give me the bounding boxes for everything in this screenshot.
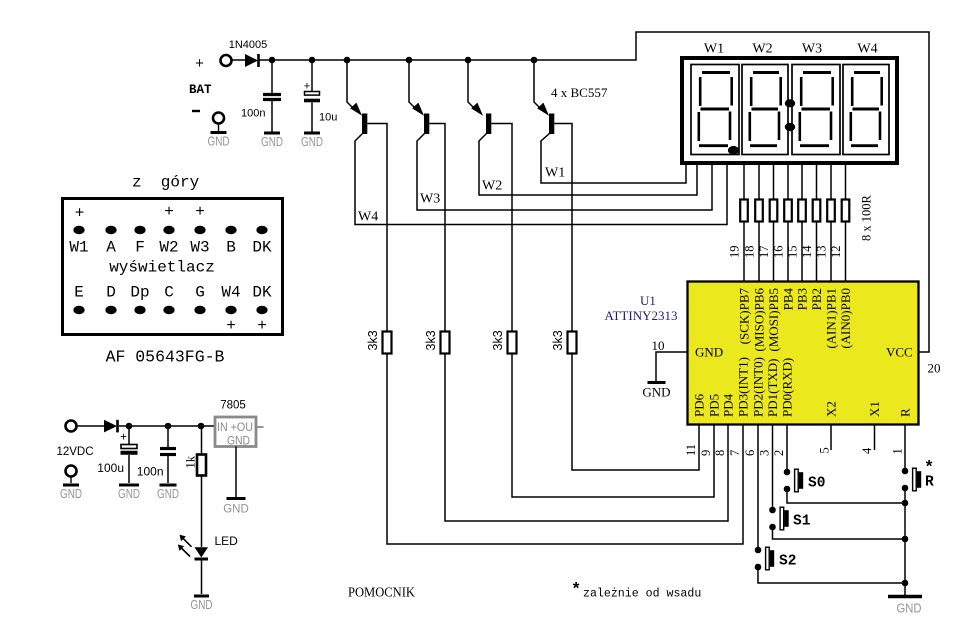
svg-text:+: + — [304, 81, 310, 93]
svg-text:GND: GND — [60, 487, 82, 501]
svg-text:*: * — [571, 581, 581, 600]
svg-text:(MOSI)PB5: (MOSI)PB5 — [766, 288, 781, 352]
svg-text:PD3(INT1): PD3(INT1) — [736, 357, 751, 417]
svg-text:GND: GND — [191, 598, 213, 612]
svg-text:GND: GND — [695, 345, 723, 360]
svg-text:*: * — [924, 459, 934, 478]
svg-text:1: 1 — [891, 448, 905, 454]
svg-text:18: 18 — [743, 246, 757, 259]
svg-text:(MISO)PB6: (MISO)PB6 — [752, 288, 767, 352]
svg-text:S2: S2 — [779, 554, 796, 570]
svg-text:+: + — [164, 203, 174, 221]
svg-text:W2: W2 — [159, 239, 178, 257]
svg-text:GND: GND — [897, 602, 922, 616]
svg-text:W2: W2 — [482, 179, 502, 194]
svg-text:100n: 100n — [137, 465, 164, 479]
svg-text:W1: W1 — [704, 42, 724, 57]
svg-text:W1: W1 — [69, 239, 88, 257]
svg-text:3k3: 3k3 — [424, 330, 438, 350]
svg-text:R: R — [898, 408, 913, 417]
svg-text:X2: X2 — [824, 401, 839, 417]
svg-text:W2: W2 — [752, 42, 772, 57]
svg-text:12: 12 — [829, 246, 843, 259]
svg-text:GND: GND — [642, 385, 670, 400]
svg-text:4 x BC557: 4 x BC557 — [551, 85, 608, 100]
svg-text:3k3: 3k3 — [366, 330, 380, 350]
svg-text:+: + — [75, 205, 85, 223]
svg-text:+: + — [257, 317, 267, 335]
svg-text:7: 7 — [728, 450, 742, 456]
svg-text:1N4005: 1N4005 — [229, 39, 268, 51]
svg-text:F: F — [135, 239, 145, 257]
svg-text:GND: GND — [157, 487, 179, 501]
svg-text:W1: W1 — [545, 166, 565, 181]
svg-text:2: 2 — [772, 450, 786, 456]
svg-text:PD6: PD6 — [692, 393, 707, 417]
svg-text:+: + — [195, 55, 204, 72]
svg-text:W4: W4 — [221, 284, 240, 302]
svg-text:W3: W3 — [420, 192, 440, 207]
svg-text:GND: GND — [118, 487, 140, 501]
svg-text:3: 3 — [758, 450, 772, 456]
svg-text:S0: S0 — [808, 476, 825, 492]
svg-text:D: D — [106, 284, 116, 302]
svg-text:W4: W4 — [358, 210, 378, 225]
svg-text:ATTINY2313: ATTINY2313 — [605, 308, 678, 323]
svg-text:Dp: Dp — [130, 284, 149, 302]
svg-text:E: E — [74, 284, 84, 302]
svg-text:U1: U1 — [640, 293, 656, 308]
svg-text:100n: 100n — [241, 108, 265, 120]
svg-text:15: 15 — [786, 246, 800, 259]
svg-text:PD2(INT0): PD2(INT0) — [751, 357, 766, 417]
svg-text:100u: 100u — [97, 461, 124, 475]
svg-text:PB2: PB2 — [809, 288, 824, 310]
svg-text:PD4: PD4 — [721, 393, 736, 417]
svg-text:12VDC: 12VDC — [56, 446, 93, 458]
svg-text:VCC: VCC — [886, 345, 913, 360]
svg-text:19: 19 — [728, 246, 742, 259]
svg-text:W4: W4 — [857, 42, 877, 57]
svg-text:DK: DK — [252, 284, 272, 302]
svg-text:10: 10 — [652, 338, 665, 353]
svg-text:6: 6 — [743, 450, 757, 456]
svg-text:+: + — [120, 432, 127, 444]
svg-text:A: A — [106, 239, 116, 257]
svg-text:LED: LED — [215, 534, 239, 548]
svg-text:4: 4 — [860, 447, 874, 454]
svg-text:DK: DK — [252, 239, 272, 257]
svg-text:(AIN1)PB1: (AIN1)PB1 — [824, 288, 839, 349]
svg-text:POMOCNIK: POMOCNIK — [348, 585, 415, 600]
svg-text:(AIN0)PB0: (AIN0)PB0 — [838, 288, 853, 349]
svg-text:20: 20 — [928, 361, 941, 376]
svg-text:GND: GND — [223, 504, 249, 516]
svg-text:AF 05643FG-B: AF 05643FG-B — [106, 348, 225, 367]
svg-text:9: 9 — [699, 450, 713, 456]
svg-text:W3: W3 — [190, 239, 209, 257]
svg-text:+: + — [195, 203, 205, 221]
svg-text:B: B — [226, 239, 236, 257]
svg-text:C: C — [164, 284, 174, 302]
svg-text:5: 5 — [818, 447, 832, 453]
svg-text:14: 14 — [800, 245, 814, 258]
svg-text:7805: 7805 — [220, 400, 246, 412]
svg-text:16: 16 — [772, 246, 786, 259]
svg-text:(SCK)PB7: (SCK)PB7 — [737, 288, 752, 345]
svg-text:17: 17 — [757, 246, 771, 259]
svg-text:PB4: PB4 — [781, 288, 796, 311]
svg-text:X1: X1 — [867, 401, 882, 417]
svg-text:11: 11 — [684, 444, 698, 456]
svg-text:GND: GND — [301, 135, 323, 149]
svg-text:PB3: PB3 — [795, 288, 810, 310]
svg-text:+: + — [226, 317, 236, 335]
svg-text:z góry: z góry — [132, 174, 200, 192]
svg-text:IN +OU: IN +OU — [217, 422, 253, 434]
svg-text:G: G — [195, 284, 205, 302]
svg-text:PD0(RXD): PD0(RXD) — [780, 358, 795, 417]
svg-text:GND: GND — [227, 436, 250, 448]
svg-text:S1: S1 — [793, 514, 811, 530]
svg-text:GND: GND — [261, 135, 283, 149]
svg-text:3k3: 3k3 — [551, 330, 565, 350]
svg-text:PD1(TXD): PD1(TXD) — [765, 359, 780, 418]
svg-text:13: 13 — [815, 246, 829, 259]
svg-text:BAT: BAT — [189, 83, 212, 97]
svg-text:W3: W3 — [802, 42, 822, 57]
svg-text:8 x 100R: 8 x 100R — [860, 195, 874, 242]
svg-text:1k: 1k — [184, 455, 198, 468]
svg-text:10u: 10u — [319, 112, 337, 124]
svg-text:3k3: 3k3 — [491, 330, 505, 350]
svg-text:GND: GND — [208, 135, 230, 149]
svg-text:PD5: PD5 — [707, 394, 722, 417]
svg-text:zależnie od wsadu: zależnie od wsadu — [583, 588, 701, 601]
svg-text:wyświetlacz: wyświetlacz — [109, 259, 215, 277]
svg-text:8: 8 — [713, 450, 727, 456]
